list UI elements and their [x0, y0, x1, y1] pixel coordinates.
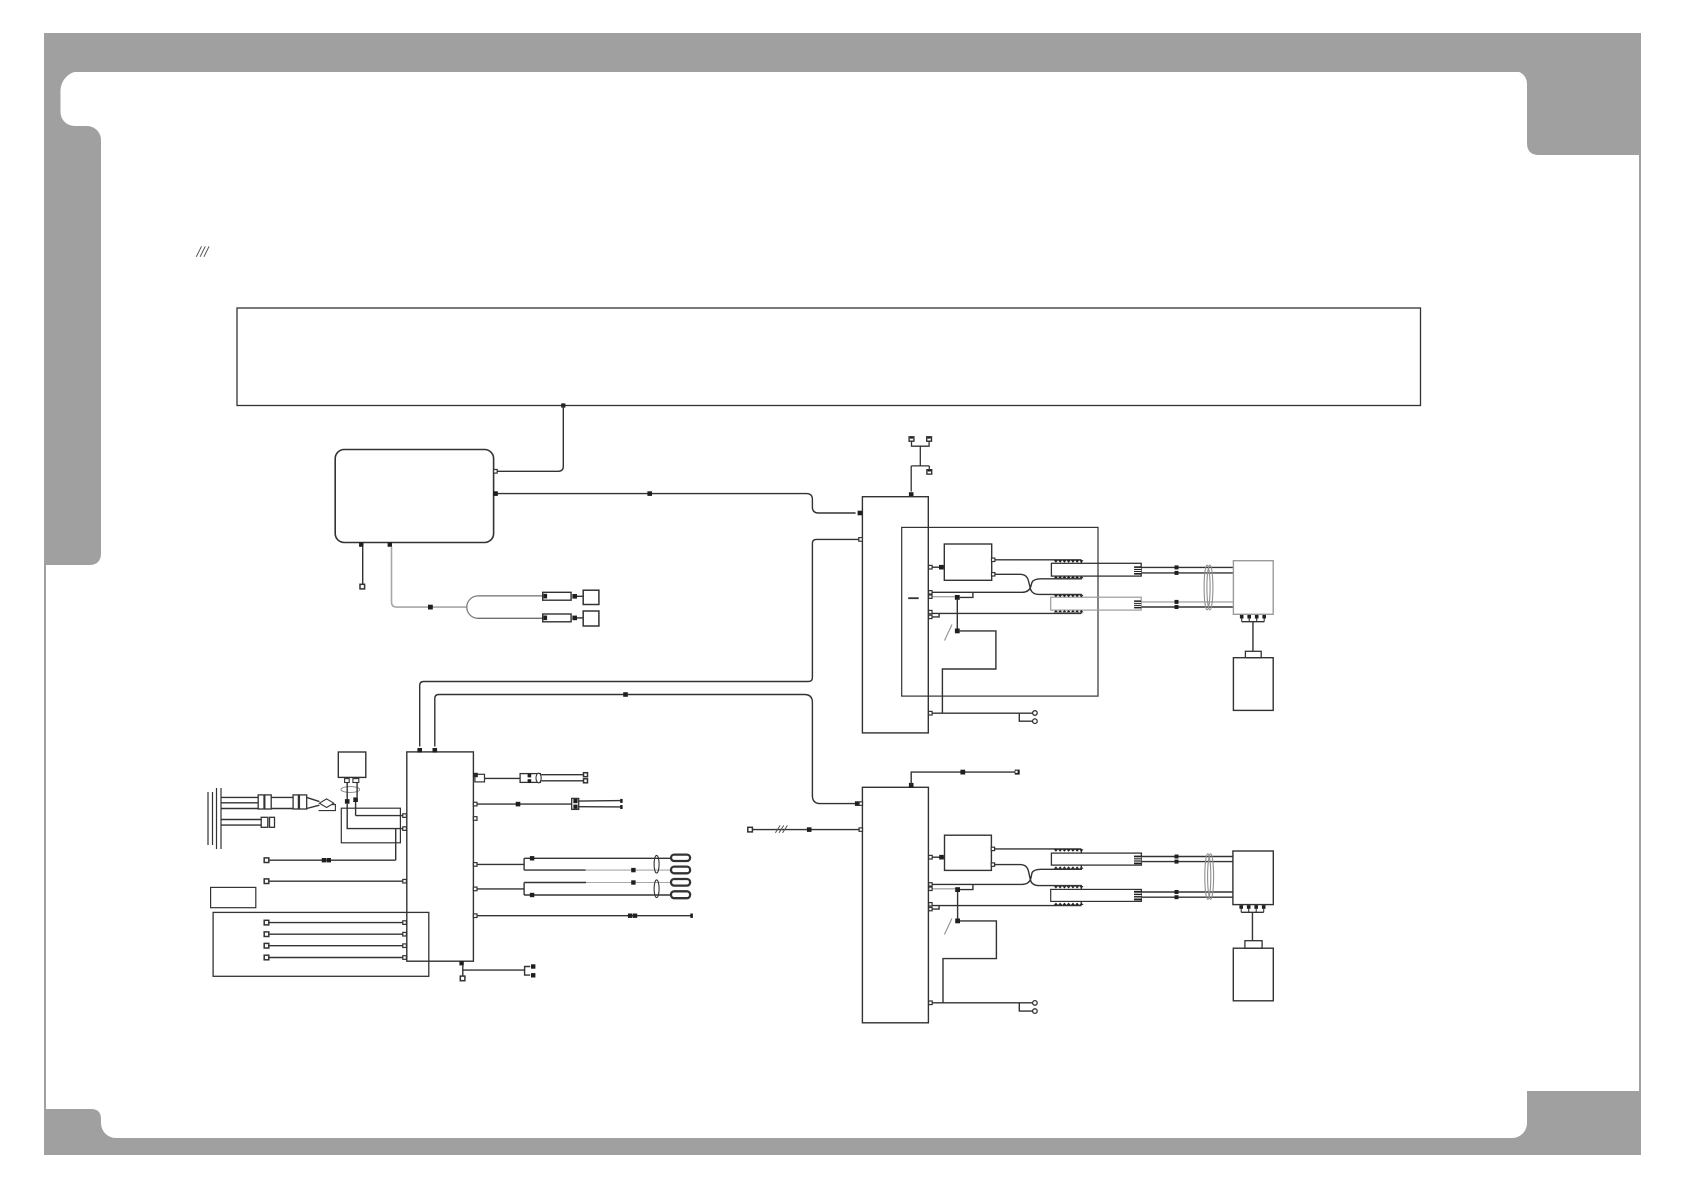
terminal board wire 3 — [264, 943, 406, 948]
long wire R5 — [473, 914, 691, 918]
upper yoke connector box — [1233, 561, 1273, 615]
hatch mark (revision slashes) — [196, 246, 209, 256]
open terminal below A3 — [460, 976, 465, 981]
lower coil L1 output pair — [1141, 855, 1233, 864]
terminal board box — [213, 912, 429, 976]
lower block bottom pin — [929, 1001, 933, 1005]
module M1 bottom pin a — [359, 542, 363, 546]
fork terminal b — [531, 973, 535, 977]
upper junction J2 — [955, 629, 960, 634]
junction after CN-B — [572, 616, 577, 621]
speaker row B junction bottom — [530, 893, 534, 897]
power terminal T2 — [927, 437, 932, 441]
pair wires R1 — [541, 775, 584, 781]
note box — [237, 308, 1421, 406]
cable module to fork — [392, 547, 467, 607]
junction on terminal wire — [807, 827, 812, 832]
upper coil L1 plug end — [1134, 566, 1141, 574]
inline connector CN-A — [543, 592, 571, 600]
lower junction J1 — [955, 887, 960, 892]
box B-B — [583, 611, 599, 626]
plug block 1 — [258, 795, 264, 809]
speaker row B bottom wire — [524, 894, 671, 896]
lower junction J2 — [955, 919, 960, 924]
wire W1 module to upper block — [498, 494, 856, 513]
tuner wire left — [346, 783, 348, 800]
plug wires mid — [271, 797, 293, 808]
lower coil L1 plug end — [1134, 856, 1141, 865]
upper connector pins — [1240, 615, 1266, 622]
upper wire to speaker — [1252, 622, 1254, 652]
speaker row A top wire — [524, 857, 671, 859]
lower block left pin from W3 — [855, 801, 863, 806]
plug block 3 — [293, 795, 298, 809]
fork terminal a — [531, 964, 535, 968]
terminal board wire 2 — [264, 932, 406, 937]
lower wire block pin1 to L1 crossover — [929, 865, 1082, 886]
lower coil L1 winding top — [1054, 849, 1084, 851]
upper block pin3/pin4 — [929, 610, 940, 618]
wire T1/T2 join — [911, 441, 929, 491]
junction pair on antenna wire — [322, 858, 331, 862]
lower terminal ring 1 — [1033, 1001, 1038, 1006]
junction on wire W1 — [647, 491, 652, 496]
lower coil L2 winding bottom — [1054, 903, 1084, 905]
lower wire sub-board to L2 crossover — [995, 865, 1082, 890]
board A3 main block — [407, 752, 474, 961]
upper cable bundle ring — [1204, 565, 1213, 610]
upper wire sub-board to L2 crossover — [995, 574, 1081, 597]
lower coil L1 body — [1051, 853, 1141, 865]
junction at upper block top — [909, 492, 914, 497]
lower yoke connector box — [1233, 851, 1273, 905]
upper coil L2 plug end — [1134, 600, 1141, 608]
module M1 rounded block — [335, 450, 493, 543]
wire CN-B to box — [577, 617, 583, 619]
junction tuner left — [345, 799, 350, 804]
tuner cable ring — [341, 787, 360, 793]
ferrite ring R1 — [536, 773, 541, 783]
wire W2 upper block to board A3 — [420, 539, 859, 746]
upper wire block to sub-board — [929, 565, 945, 570]
wire R2 — [477, 803, 572, 805]
wire R1 — [485, 777, 521, 779]
cable fork — [467, 596, 478, 618]
upper wire block pin1 to L1 crossover — [929, 576, 1082, 594]
junction on note box bottom — [561, 403, 565, 407]
upper sub-board box — [944, 544, 995, 580]
lower sub-board box — [945, 835, 995, 870]
wire tuner-left to board pin — [347, 804, 406, 831]
speaker row A ferrite ring — [654, 855, 659, 873]
lower cable bundle ring — [1205, 854, 1214, 900]
lower block top pin — [909, 783, 914, 788]
lower speaker tab — [1245, 941, 1262, 949]
lower switch lever — [944, 919, 952, 935]
speaker row B ferrite ring — [654, 880, 659, 898]
upper terminal ring 1 — [1033, 711, 1038, 716]
lower terminal ring 2 — [1033, 1009, 1038, 1014]
speaker row B lug 1 — [671, 879, 690, 886]
tuner wire right — [356, 783, 358, 798]
board A3 bottom pin — [459, 961, 463, 965]
lower coil L2 body — [1051, 889, 1142, 901]
stub block 1 — [261, 817, 268, 827]
module M1 pin 2 — [493, 491, 498, 496]
wire tuner-right to board pin — [356, 802, 407, 817]
inline connector CN-B — [543, 614, 571, 622]
lower coil L2 output pair — [1141, 890, 1233, 899]
junction pair on R5 — [628, 914, 637, 918]
lower wire to degauss terminals — [932, 1003, 1032, 1011]
junction on wire R2 — [516, 802, 521, 807]
board A3 pin R1 connector — [473, 773, 484, 782]
fork lower branch wire — [478, 617, 543, 619]
fork upper branch wire — [478, 595, 543, 597]
wire bottom fork — [463, 967, 530, 976]
lower wire J1 down — [957, 892, 959, 919]
upper wire to degauss terminals — [932, 713, 1032, 721]
upper coil L1 winding top — [1054, 560, 1084, 562]
tuner pins — [345, 777, 359, 782]
upper coil L2 output pair — [1141, 600, 1233, 609]
lower main block — [862, 787, 928, 1023]
lower stepped return wire — [943, 921, 996, 1003]
upper terminal ring 2 — [1033, 719, 1038, 724]
wire rf loop to antenna line — [395, 829, 397, 861]
upper block bottom pin — [929, 711, 933, 715]
stub wires lower — [221, 820, 261, 826]
speaker row A junction top — [530, 856, 534, 860]
terminal R5 — [690, 914, 693, 918]
terminal on lower top wire — [1015, 770, 1020, 775]
lower coil L1 winding bottom — [1054, 866, 1084, 868]
upper block left pin (W1 end) — [858, 511, 863, 516]
board A3 top pin a — [417, 748, 422, 753]
terminal R1a — [584, 773, 588, 777]
plug block 4 — [299, 795, 306, 809]
plug prongs — [208, 788, 221, 849]
lower wire block to sub-board — [929, 855, 945, 860]
plug tip step — [319, 805, 336, 811]
lower block top wire — [911, 772, 1015, 785]
wire W3 board A3 to lower block — [435, 695, 855, 804]
connector CN-R2 — [572, 798, 579, 809]
speaker row A lug 1 — [671, 855, 690, 861]
open terminal below module — [360, 584, 365, 589]
box B-A — [583, 590, 599, 604]
lower coil L2 plug end — [1134, 891, 1141, 901]
pair wires R2 — [579, 801, 621, 807]
wire module pin a to terminal — [362, 547, 364, 585]
terminal board wire 4 — [264, 955, 406, 960]
wire terminal to lower block — [752, 828, 862, 831]
speaker row A junction bottom — [631, 868, 635, 872]
lower coil L1 feed wire — [995, 849, 1082, 853]
upper switch lever — [945, 625, 953, 641]
speaker row B lug 2 — [671, 891, 690, 898]
lower wire pin3 to L2 bottom — [932, 901, 1081, 905]
plug converging wires — [307, 797, 320, 808]
speaker row A pin wire — [473, 863, 524, 867]
upper speaker tab — [1245, 651, 1261, 657]
speaker row A bracket — [523, 858, 525, 870]
terminal R2b — [620, 805, 622, 809]
plug tip diamond — [319, 799, 333, 808]
tuner box — [338, 752, 366, 777]
board A3 pin R2 — [473, 802, 477, 806]
junction after CN-A — [572, 594, 577, 599]
lower wire to speaker — [1251, 912, 1253, 940]
power terminal T3 — [927, 470, 932, 474]
upper coil L1 winding bottom — [1054, 576, 1084, 578]
board A3 stub pin — [473, 817, 477, 821]
lower block pin3/pin4 — [929, 903, 939, 911]
wire bottom pin down — [462, 965, 464, 976]
upper wire J1 down — [956, 600, 958, 629]
lower connector pins — [1239, 905, 1265, 912]
far-left open terminal — [748, 827, 753, 832]
upper coil L1 feed wire — [995, 560, 1081, 564]
upper coil L2 winding bottom — [1054, 610, 1084, 612]
upper jog wire J1 to pin1 line — [960, 592, 973, 597]
junction tuner right — [353, 797, 358, 802]
speaker row A lug 2 — [671, 867, 690, 874]
label box — [211, 887, 256, 907]
upper speaker box — [1233, 658, 1273, 711]
junction on wire W3 — [623, 692, 628, 697]
speaker row B junction top — [631, 880, 635, 884]
plug block 2 — [265, 795, 271, 809]
upper junction J1 — [955, 595, 960, 600]
upper coil L2 body — [1051, 597, 1142, 610]
board A3 top pin b — [433, 748, 438, 753]
terminal R2a — [620, 799, 622, 803]
terminal R1b — [584, 779, 588, 783]
speaker row B pin wire — [473, 887, 524, 891]
cable slash marks — [775, 825, 787, 832]
plug wires top — [221, 797, 258, 808]
wire CN-A to box — [577, 595, 583, 597]
upper coil L1 body — [1051, 563, 1141, 576]
junction on cable — [428, 605, 433, 610]
speaker row A bottom wire — [524, 869, 671, 871]
connector CN-R1 — [520, 774, 540, 783]
antenna wire — [267, 859, 396, 861]
speaker row B top wire — [524, 882, 671, 884]
lower coil L2 winding top — [1054, 886, 1084, 888]
upper wire pin3 to L2 bottom — [932, 610, 1081, 613]
upper coil L2 winding top — [1054, 595, 1084, 597]
upper coil L1 output pair — [1141, 565, 1233, 575]
antenna terminal — [264, 858, 269, 863]
wire note box to module pin1 — [496, 406, 563, 472]
junction on lower top wire — [960, 770, 965, 775]
module M1 bottom pin b — [388, 542, 392, 546]
upper block pin2 wire — [929, 595, 956, 598]
upper main block — [862, 497, 928, 733]
upper block inner dash — [908, 597, 919, 599]
upper stepped return wire — [942, 631, 996, 713]
lower speaker box — [1233, 948, 1273, 1001]
upper group containing box — [902, 527, 1098, 696]
upper block left pin (W2) — [859, 538, 863, 542]
module M1 pin 1 — [494, 470, 498, 474]
lower block pin2 wire — [929, 887, 956, 890]
power terminal T1 — [909, 437, 914, 441]
lower jog wire J1 to pin1 line — [960, 884, 973, 889]
stub block 2 — [270, 817, 275, 827]
speaker row B bracket — [523, 883, 525, 896]
wire AV in — [264, 879, 406, 884]
rf loop box — [341, 808, 400, 843]
terminal board wire 1 — [264, 920, 406, 925]
